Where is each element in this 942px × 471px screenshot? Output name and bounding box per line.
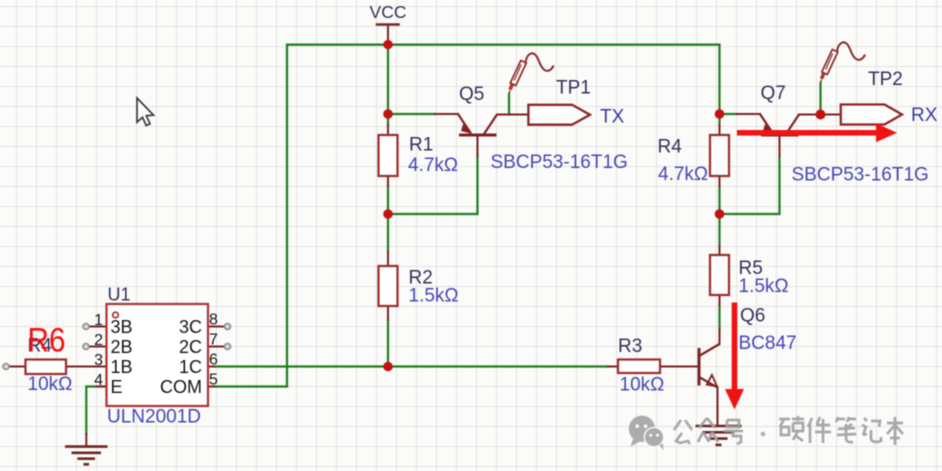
svg-text:RX: RX [911,105,938,126]
svg-text:TP2: TP2 [868,69,903,90]
svg-text:3: 3 [94,352,103,369]
svg-text:Q6: Q6 [740,306,765,327]
svg-text:1.5kΩ: 1.5kΩ [409,286,459,307]
svg-text:2C: 2C [179,337,202,357]
svg-text:1.5kΩ: 1.5kΩ [739,276,789,297]
svg-text:R3: R3 [618,336,642,357]
svg-text:SBCP53-16T1G: SBCP53-16T1G [792,165,929,186]
svg-text:10kΩ: 10kΩ [620,375,665,396]
svg-text:10kΩ: 10kΩ [28,374,73,395]
svg-text:Q5: Q5 [459,84,484,105]
svg-text:SBCP53-16T1G: SBCP53-16T1G [491,152,628,173]
svg-text:5: 5 [209,372,218,389]
svg-text:BC847: BC847 [739,333,797,354]
svg-text:TX: TX [600,107,625,128]
svg-text:U1: U1 [108,285,131,305]
svg-text:COM: COM [160,377,202,397]
svg-text:4: 4 [94,372,103,389]
svg-text:R1: R1 [409,135,433,156]
svg-text:R6: R6 [28,322,66,360]
svg-text:ULN2001D: ULN2001D [107,407,201,428]
svg-text:Q7: Q7 [761,83,786,104]
svg-text:1: 1 [94,312,103,329]
svg-text:E: E [111,377,123,397]
svg-text:VCC: VCC [370,2,407,22]
svg-text:4.7kΩ: 4.7kΩ [408,155,458,176]
svg-text:3B: 3B [111,317,133,337]
svg-text:3C: 3C [179,317,202,337]
svg-text:8: 8 [209,312,218,329]
svg-text:7: 7 [209,332,218,349]
svg-text:TP1: TP1 [556,78,591,99]
svg-text:1B: 1B [111,357,133,377]
svg-text:2B: 2B [111,337,133,357]
svg-text:2: 2 [94,332,103,349]
svg-text:6: 6 [209,352,218,369]
svg-text:4.7kΩ: 4.7kΩ [658,164,708,185]
svg-text:1C: 1C [179,357,202,377]
svg-text:R4: R4 [658,137,683,158]
